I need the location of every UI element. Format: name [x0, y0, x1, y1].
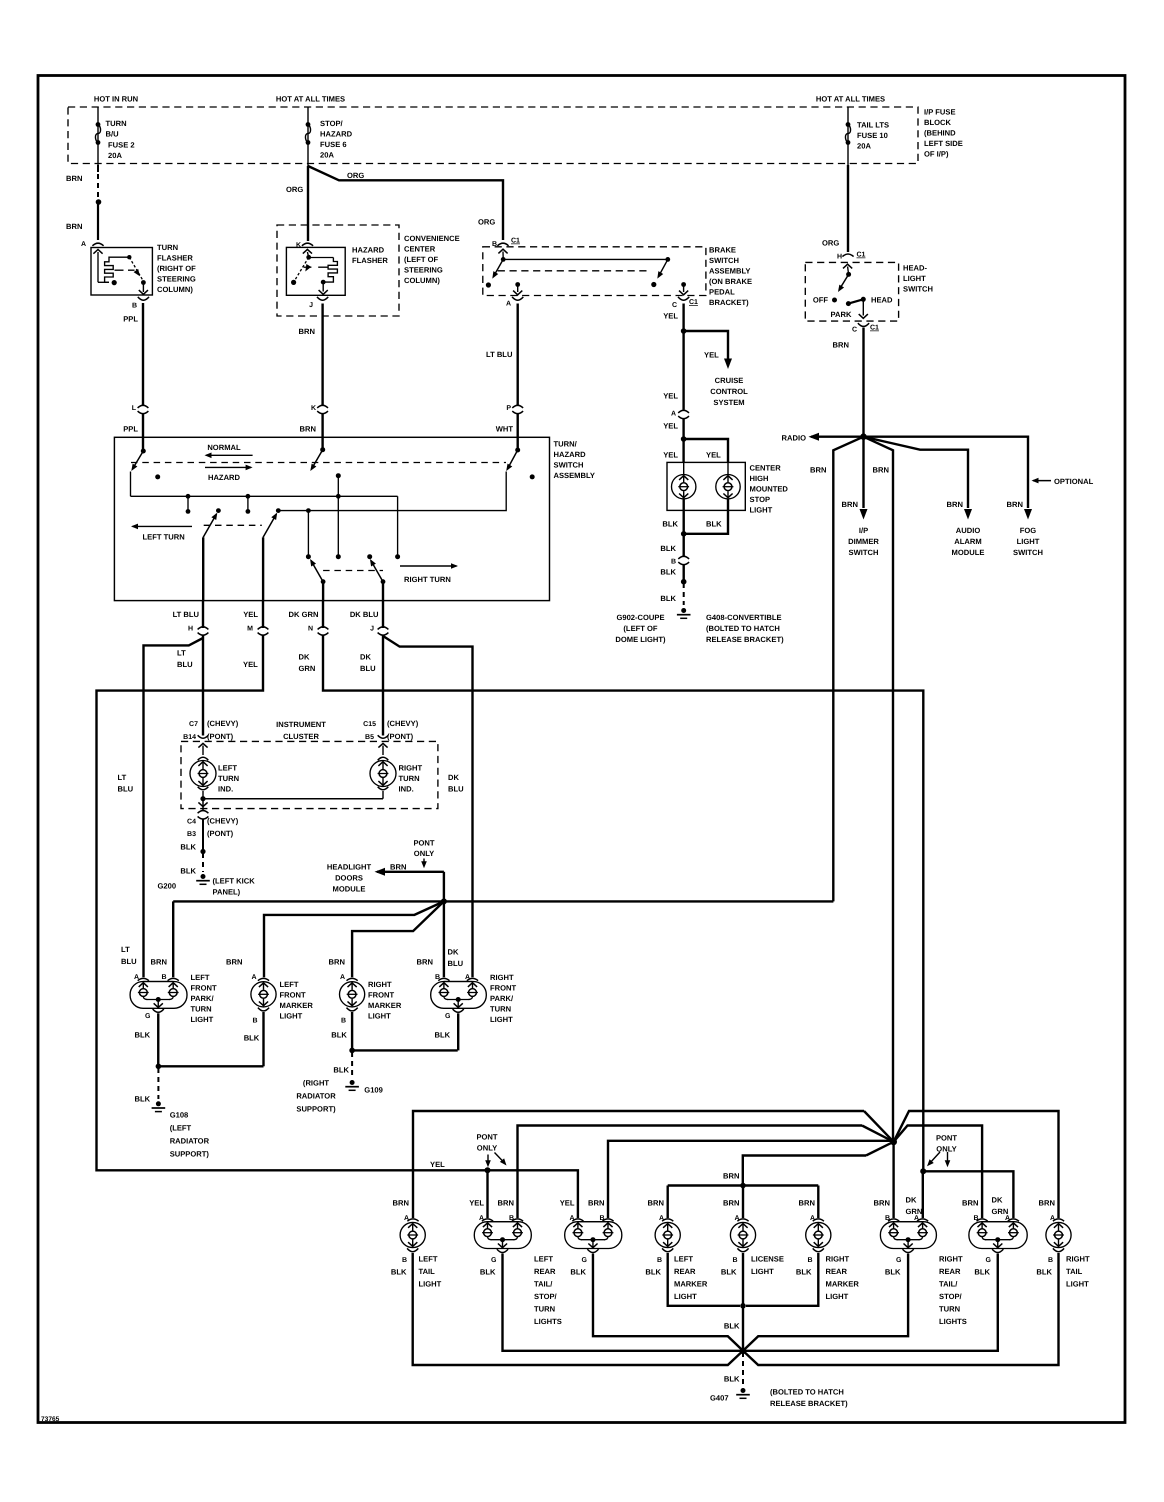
svg-text:YEL: YEL: [430, 1160, 445, 1169]
wire BRN arm to rear lighting (right): [864, 437, 894, 1142]
svg-text:LIGHT: LIGHT: [751, 1267, 774, 1276]
svg-text:(CHEVY): (CHEVY): [387, 719, 419, 728]
svg-text:SWITCH: SWITCH: [1013, 548, 1043, 557]
svg-text:SWITCH: SWITCH: [554, 461, 584, 470]
svg-text:YEL: YEL: [706, 451, 721, 460]
wire BRN headlight switch C to radio splice: [862, 328, 864, 437]
connector M YEL: [262, 601, 264, 628]
svg-text:STOP: STOP: [750, 495, 771, 504]
svg-text:20A: 20A: [320, 151, 334, 160]
svg-text:DK: DK: [992, 1196, 1003, 1205]
svg-text:LT: LT: [121, 945, 130, 954]
svg-text:BLK: BLK: [660, 594, 676, 603]
svg-text:A: A: [340, 974, 345, 981]
svg-text:COLUMN): COLUMN): [157, 285, 193, 294]
svg-text:SWITCH: SWITCH: [849, 548, 879, 557]
svg-text:C1: C1: [870, 325, 879, 332]
LEFT TURN arrow: [133, 525, 193, 527]
svg-text:DK BLU: DK BLU: [350, 610, 379, 619]
svg-text:OPTIONAL: OPTIONAL: [1054, 477, 1094, 486]
wire BLK left rear 1 ground: [503, 1254, 741, 1351]
svg-text:TAIL LTS: TAIL LTS: [857, 121, 889, 130]
svg-text:OFF: OFF: [813, 296, 829, 305]
wire BRN bus to front lights: [173, 900, 833, 902]
svg-text:I/P: I/P: [859, 526, 868, 535]
svg-text:BLK: BLK: [660, 544, 676, 553]
svg-text:DK: DK: [360, 653, 371, 662]
svg-text:BRN: BRN: [723, 1172, 739, 1181]
splice BLK to grounds: [681, 579, 687, 585]
wire BLK left rear marker ground: [668, 1253, 740, 1306]
ground G902/G408: [681, 608, 686, 613]
svg-text:SUPPORT): SUPPORT): [170, 1150, 210, 1159]
wire DK GRN to right rear light A: [922, 1171, 924, 1218]
svg-text:B: B: [132, 303, 137, 310]
svg-text:CENTER: CENTER: [404, 245, 436, 254]
svg-text:HAZARD: HAZARD: [320, 130, 353, 139]
HAZARD arrow: [205, 466, 251, 468]
svg-text:G: G: [986, 1257, 992, 1264]
svg-text:ORG: ORG: [478, 218, 495, 227]
svg-text:SYSTEM: SYSTEM: [713, 398, 744, 407]
wire ORG fuse 10 to headlight switch H: [847, 165, 849, 252]
wire BRN hazard flasher J to switch K: [321, 304, 323, 406]
svg-text:HEADLIGHT: HEADLIGHT: [327, 863, 372, 872]
svg-text:TURN: TURN: [534, 1305, 555, 1314]
svg-text:BRN: BRN: [648, 1199, 664, 1208]
svg-text:LICENSE: LICENSE: [751, 1255, 784, 1264]
svg-text:P: P: [506, 405, 511, 412]
svg-text:BRN: BRN: [799, 1199, 815, 1208]
brake switch assembly dashed box: [483, 247, 706, 296]
svg-text:TAIL: TAIL: [419, 1267, 436, 1276]
svg-text:BRN: BRN: [393, 1199, 409, 1208]
svg-text:COLUMN): COLUMN): [404, 276, 440, 285]
wire BLK right rear 2 ground: [746, 1254, 998, 1351]
wire YEL M to rear lights: [97, 635, 578, 1219]
svg-text:(LEFT OF: (LEFT OF: [623, 624, 658, 633]
svg-text:BLK: BLK: [244, 1034, 260, 1043]
wire BLK right park down: [457, 1013, 459, 1050]
svg-text:HAZARD: HAZARD: [208, 473, 241, 482]
CHMSL right bulb: [727, 462, 729, 474]
svg-text:LEFT: LEFT: [419, 1255, 438, 1264]
splice DK GRN rear: [920, 1168, 926, 1174]
svg-text:BLK: BLK: [391, 1268, 407, 1277]
svg-text:YEL: YEL: [663, 422, 678, 431]
svg-text:RADIATOR: RADIATOR: [296, 1092, 336, 1101]
svg-text:HAZARD: HAZARD: [352, 246, 385, 255]
wire on WHT bus with splice: [306, 508, 311, 513]
left turn switch 1: [216, 508, 221, 513]
left turn switch 2: [276, 508, 281, 513]
svg-text:(RIGHT: (RIGHT: [303, 1079, 330, 1088]
svg-text:G: G: [582, 1257, 588, 1264]
svg-text:DK: DK: [448, 773, 459, 782]
wire feed fuse 10: [847, 107, 849, 165]
svg-text:REAR: REAR: [939, 1267, 961, 1276]
svg-text:J: J: [309, 302, 313, 309]
svg-text:LEFT: LEFT: [674, 1255, 693, 1264]
svg-text:REAR: REAR: [534, 1267, 556, 1276]
svg-text:RIGHT: RIGHT: [399, 764, 423, 773]
svg-text:CONVENIENCE: CONVENIENCE: [404, 234, 460, 243]
I/P fuse block (dashed box): [68, 107, 918, 164]
svg-text:FUSE 2: FUSE 2: [108, 141, 135, 150]
svg-text:BRN: BRN: [723, 1199, 739, 1208]
svg-text:STOP/: STOP/: [939, 1292, 963, 1301]
svg-text:HEAD: HEAD: [871, 296, 893, 305]
svg-text:HOT AT ALL TIMES: HOT AT ALL TIMES: [816, 95, 885, 104]
svg-text:LIGHT: LIGHT: [903, 274, 926, 283]
RIGHT TURN arrow: [400, 565, 457, 567]
wire BLK right rear marker ground: [746, 1253, 818, 1306]
svg-text:BLK: BLK: [645, 1268, 661, 1277]
PONT ONLY arrows right: [929, 1152, 940, 1164]
svg-text:BLK: BLK: [180, 843, 196, 852]
wire BRN bus to license/markers: [743, 1156, 866, 1185]
wire BRN to left rear marker: [667, 1186, 669, 1219]
svg-text:FLASHER: FLASHER: [157, 254, 193, 263]
wire BLK from CHMSL bulbs: [683, 499, 685, 533]
wire BRN to right front marker: [352, 901, 444, 977]
svg-text:BRN: BRN: [329, 958, 345, 967]
svg-text:NORMAL: NORMAL: [207, 443, 241, 452]
wire BRN to headlight doors module: [377, 871, 444, 873]
svg-text:J: J: [370, 626, 374, 633]
svg-text:A: A: [506, 301, 511, 308]
svg-text:PARK: PARK: [831, 310, 852, 319]
svg-text:(PONT): (PONT): [207, 829, 234, 838]
svg-text:BLK: BLK: [135, 1095, 151, 1104]
svg-text:AUDIO: AUDIO: [956, 526, 981, 535]
connector H LT BLU: [202, 601, 204, 628]
svg-text:LIGHT: LIGHT: [674, 1292, 697, 1301]
svg-text:RADIO: RADIO: [782, 434, 807, 443]
svg-text:BRN: BRN: [226, 958, 242, 967]
svg-text:B3: B3: [187, 831, 196, 838]
svg-text:LEFT: LEFT: [280, 980, 299, 989]
svg-text:HOT IN RUN: HOT IN RUN: [94, 95, 138, 104]
right turn switch 1: [311, 560, 323, 581]
svg-text:DK: DK: [299, 653, 310, 662]
svg-text:ORG: ORG: [347, 171, 364, 180]
svg-text:B/U: B/U: [106, 130, 120, 139]
svg-text:C1: C1: [857, 252, 866, 259]
svg-text:MODULE: MODULE: [952, 548, 985, 557]
wire YEL into CHMSL left bulb: [682, 439, 684, 462]
svg-text:B: B: [807, 1257, 812, 1264]
svg-text:ORG: ORG: [286, 185, 303, 194]
svg-text:BRACKET): BRACKET): [709, 298, 749, 307]
svg-text:BLK: BLK: [721, 1268, 737, 1277]
wire BLK cluster to C4: [202, 799, 204, 807]
svg-text:CONTROL: CONTROL: [710, 387, 748, 396]
svg-text:RIGHT TURN: RIGHT TURN: [404, 575, 451, 584]
svg-text:RIGHT: RIGHT: [368, 980, 392, 989]
svg-text:73765: 73765: [41, 1416, 60, 1423]
svg-text:(ON BRAKE: (ON BRAKE: [709, 277, 752, 286]
svg-text:B: B: [252, 1018, 257, 1025]
contact stub left: [187, 496, 189, 509]
ground splice G407: [740, 1348, 746, 1354]
switch pole BRN: [321, 437, 323, 449]
svg-text:IND.: IND.: [399, 785, 414, 794]
svg-text:LIGHT: LIGHT: [419, 1280, 442, 1289]
svg-text:BRN: BRN: [390, 862, 406, 871]
right turn switch 2: [367, 554, 372, 559]
svg-text:G200: G200: [158, 882, 177, 891]
wire to right-turn contacts: [397, 496, 399, 554]
splice BRN front distribution: [441, 898, 447, 904]
svg-text:G109: G109: [364, 1086, 383, 1095]
svg-text:TURN: TURN: [218, 774, 239, 783]
wire ORG fuse 6 down to hazard flasher K: [307, 166, 309, 241]
svg-text:MARKER: MARKER: [368, 1001, 402, 1010]
wire ORG fuse 6 to brake switch (diagonal+horizontal+down): [308, 166, 503, 240]
svg-text:HOT AT ALL TIMES: HOT AT ALL TIMES: [276, 95, 345, 104]
wire PPL turn flasher B to switch L: [142, 303, 144, 406]
svg-text:G902-COUPE: G902-COUPE: [616, 613, 664, 622]
hazard flasher box: [286, 247, 345, 295]
svg-text:BRN: BRN: [151, 958, 167, 967]
wire BRN to right tail light: [894, 1111, 1059, 1218]
svg-text:ASSEMBLY: ASSEMBLY: [709, 267, 751, 276]
svg-text:RADIATOR: RADIATOR: [170, 1137, 210, 1146]
svg-text:LT BLU: LT BLU: [486, 350, 513, 359]
svg-text:BRN: BRN: [1007, 500, 1023, 509]
svg-text:BLK: BLK: [974, 1268, 990, 1277]
svg-text:BLK: BLK: [1036, 1268, 1052, 1277]
splice BLK G108: [156, 1064, 162, 1070]
wire BRN to left front park B: [172, 901, 174, 977]
svg-text:PPL: PPL: [123, 315, 138, 324]
svg-text:FLASHER: FLASHER: [352, 256, 388, 265]
svg-text:PONT: PONT: [413, 839, 434, 848]
brake switch internals: [498, 249, 507, 253]
center high mounted stop light box: [667, 462, 745, 510]
splice BLK license/markers: [740, 1303, 746, 1309]
svg-text:B14: B14: [183, 734, 196, 741]
svg-text:REAR: REAR: [674, 1267, 696, 1276]
svg-text:(CHEVY): (CHEVY): [207, 817, 239, 826]
svg-text:CLUSTER: CLUSTER: [283, 732, 319, 741]
svg-text:M: M: [247, 626, 253, 633]
ground G407: [741, 1388, 746, 1393]
wire BLK left rear 2 ground: [593, 1254, 743, 1351]
svg-text:B: B: [732, 1257, 737, 1264]
svg-text:N: N: [308, 626, 313, 633]
svg-text:B: B: [671, 559, 676, 566]
svg-text:HAZARD: HAZARD: [554, 450, 587, 459]
wire BRN bus to left rear light B: [518, 1126, 863, 1219]
svg-text:ORG: ORG: [822, 239, 839, 248]
svg-text:INSTRUMENT: INSTRUMENT: [276, 720, 326, 729]
svg-text:BLU: BLU: [360, 664, 376, 673]
wire BRN arm to I/P dimmer switch: [862, 437, 864, 508]
svg-text:LIGHT: LIGHT: [490, 1015, 513, 1024]
wire BRN pole vertical: [336, 473, 341, 478]
svg-text:LEFT: LEFT: [191, 973, 210, 982]
connector J DK BLU: [382, 601, 384, 628]
svg-text:G: G: [896, 1257, 902, 1264]
wire DK BLU J to instrument cluster C15: [382, 635, 384, 736]
ground G109: [350, 1080, 355, 1085]
wire BRN bus to left rear light 2 B: [608, 1141, 894, 1218]
svg-text:DK: DK: [448, 948, 459, 957]
svg-text:FRONT: FRONT: [280, 991, 307, 1000]
svg-text:LIGHT: LIGHT: [1017, 537, 1040, 546]
fuse STOP/HAZARD FUSE 6 20A: [306, 122, 311, 127]
svg-text:DOORS: DOORS: [335, 874, 363, 883]
svg-text:SWITCH: SWITCH: [903, 285, 933, 294]
wire BRN to left front marker: [264, 901, 444, 977]
svg-text:LIGHT: LIGHT: [826, 1292, 849, 1301]
turn flasher box: [91, 248, 152, 296]
svg-text:BRN: BRN: [962, 1199, 978, 1208]
svg-text:20A: 20A: [857, 142, 871, 151]
svg-text:BLK: BLK: [796, 1268, 812, 1277]
switch output M wire: [262, 537, 264, 600]
svg-text:DK: DK: [906, 1196, 917, 1205]
wire BRN splice down to right rear light B: [892, 1142, 894, 1218]
right turn indicator bulb: [378, 743, 387, 747]
svg-text:RIGHT: RIGHT: [939, 1255, 963, 1264]
svg-text:FOG: FOG: [1020, 526, 1037, 535]
svg-text:YEL: YEL: [663, 451, 678, 460]
OPTIONAL pointer: [1032, 478, 1039, 484]
svg-text:LIGHT: LIGHT: [191, 1015, 214, 1024]
PONT ONLY arrows left: [487, 1155, 489, 1164]
svg-text:C4: C4: [187, 819, 196, 826]
svg-text:BRN: BRN: [1039, 1199, 1055, 1208]
wire LT BLU branch to left front park light: [144, 638, 204, 977]
svg-text:BLK: BLK: [570, 1268, 586, 1277]
svg-text:A: A: [671, 411, 676, 418]
internal bus wire: [131, 495, 398, 497]
wire BRN arm to fog light switch: [864, 437, 1029, 508]
wire YEL to left rear light A: [486, 1170, 488, 1218]
svg-text:TAIL/: TAIL/: [534, 1280, 553, 1289]
svg-text:G: G: [445, 1013, 451, 1020]
switch output H wire: [202, 537, 204, 600]
cluster ground bus: [200, 796, 205, 801]
fuse TURN B/U FUSE 2 20A: [96, 122, 101, 127]
headlight switch internals: [843, 264, 852, 268]
wire DK GRN to right rear light 2 A: [923, 1171, 1013, 1218]
svg-text:BLK: BLK: [662, 520, 678, 529]
CHMSL left bulb: [683, 462, 685, 474]
wire YEL brake switch C down: [682, 304, 684, 331]
svg-text:(BEHIND: (BEHIND: [924, 129, 956, 138]
svg-text:FRONT: FRONT: [191, 984, 218, 993]
svg-text:C1: C1: [511, 238, 520, 245]
svg-text:CRUISE: CRUISE: [715, 376, 744, 385]
svg-text:B: B: [341, 1018, 346, 1025]
convenience center dashed box: [277, 225, 399, 316]
svg-text:CENTER: CENTER: [750, 464, 782, 473]
svg-text:LIGHTS: LIGHTS: [534, 1317, 562, 1326]
svg-text:LEFT SIDE: LEFT SIDE: [924, 139, 963, 148]
instrument cluster dashed box: [181, 741, 438, 808]
svg-text:RIGHT: RIGHT: [1066, 1255, 1090, 1264]
ground G108: [156, 1101, 161, 1106]
svg-text:YEL: YEL: [663, 392, 678, 401]
svg-text:(RIGHT OF: (RIGHT OF: [157, 264, 196, 273]
contact stub right: [247, 496, 249, 509]
svg-text:STEERING: STEERING: [157, 275, 196, 284]
svg-text:BLK: BLK: [331, 1031, 347, 1040]
svg-text:BLK: BLK: [724, 1375, 740, 1384]
svg-text:(PONT): (PONT): [207, 732, 234, 741]
svg-text:LEFT TURN: LEFT TURN: [143, 533, 185, 542]
svg-text:YEL: YEL: [243, 660, 258, 669]
splice on BRN wire: [96, 199, 102, 205]
svg-text:TURN/: TURN/: [554, 440, 578, 449]
svg-text:BRN: BRN: [842, 500, 858, 509]
svg-text:BLU: BLU: [448, 959, 464, 968]
svg-text:FRONT: FRONT: [490, 984, 517, 993]
svg-text:SWITCH: SWITCH: [709, 256, 739, 265]
wire BRN to right front park B: [443, 901, 445, 977]
switch pole PPL: [142, 437, 144, 451]
splice YEL to cruise control: [681, 328, 687, 334]
splice YEL left rear: [485, 1167, 491, 1173]
switch output N wire: [322, 582, 324, 601]
stationary contact dots: [155, 474, 160, 479]
svg-text:(BOLTED TO HATCH: (BOLTED TO HATCH: [770, 1388, 844, 1397]
main splice BRN rear: [890, 1138, 897, 1145]
svg-text:BLK: BLK: [135, 1031, 151, 1040]
svg-text:RIGHT: RIGHT: [826, 1255, 850, 1264]
svg-text:H: H: [188, 626, 193, 633]
svg-text:MARKER: MARKER: [674, 1280, 708, 1289]
svg-text:BLU: BLU: [448, 785, 464, 794]
wire BRN to right rear marker: [817, 1186, 819, 1219]
mechanical link dashed: [131, 462, 506, 464]
svg-text:BRN: BRN: [498, 1199, 514, 1208]
svg-text:BLK: BLK: [435, 1031, 451, 1040]
svg-text:BLK: BLK: [885, 1268, 901, 1277]
svg-text:PARK/: PARK/: [490, 994, 514, 1003]
svg-text:DK GRN: DK GRN: [289, 610, 319, 619]
svg-text:MARKER: MARKER: [826, 1280, 860, 1289]
wire BLK right marker to splice: [351, 1012, 353, 1050]
svg-text:20A: 20A: [108, 151, 122, 160]
splice YEL to CHMSL right bulb: [681, 436, 687, 442]
svg-text:TURN: TURN: [191, 1005, 212, 1014]
svg-text:RIGHT: RIGHT: [490, 973, 514, 982]
wire YEL branch right into CHMSL: [684, 439, 728, 462]
svg-text:B: B: [161, 974, 166, 981]
svg-text:BLK: BLK: [660, 568, 676, 577]
switch pole WHT: [517, 437, 519, 450]
wire YEL branch to cruise control: [684, 331, 728, 359]
svg-text:MOUNTED: MOUNTED: [750, 485, 789, 494]
svg-text:LT BLU: LT BLU: [173, 610, 200, 619]
svg-text:WHT: WHT: [496, 425, 514, 434]
svg-text:BLK: BLK: [180, 867, 196, 876]
wire BRN to right rear light 2 B: [894, 1126, 983, 1219]
svg-text:BRN: BRN: [833, 341, 849, 350]
svg-text:TAIL: TAIL: [1066, 1267, 1083, 1276]
svg-text:A: A: [251, 974, 256, 981]
svg-text:TAIL/: TAIL/: [939, 1280, 958, 1289]
wire BLK right tail ground: [743, 1253, 1059, 1365]
wire BRN to license light: [742, 1186, 744, 1219]
svg-text:(CHEVY): (CHEVY): [207, 719, 239, 728]
svg-text:H: H: [837, 254, 842, 261]
